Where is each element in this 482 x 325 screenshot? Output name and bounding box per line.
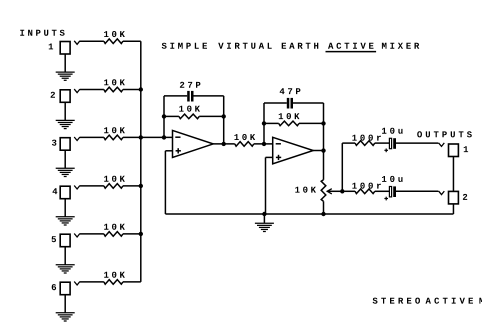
title VIRTUAL xyxy=(218,43,272,49)
pin label 2 xyxy=(51,92,55,98)
value 10K for R6 xyxy=(104,272,125,278)
value 10K for R2 xyxy=(104,79,125,85)
wire to R10 xyxy=(342,142,355,144)
wire C4 to output connector 2 xyxy=(396,190,438,192)
wire xyxy=(123,281,141,283)
wire xyxy=(80,89,104,91)
ground at J3 xyxy=(64,150,66,168)
wire from R9 xyxy=(299,122,324,124)
junction U1 output xyxy=(222,142,226,146)
wire xyxy=(80,185,104,187)
pin label 1 xyxy=(49,44,53,50)
potentiometer VR1 10K xyxy=(321,180,326,202)
wire U1 feedback right vertical xyxy=(223,96,225,144)
wire U2 output xyxy=(313,150,323,152)
wire xyxy=(123,185,141,187)
U2 plus pin mark xyxy=(276,156,281,158)
ground at J6 xyxy=(64,295,66,313)
U1 minus pin mark xyxy=(175,136,180,138)
connector J2 input 2 xyxy=(60,90,70,103)
wire to R11 xyxy=(342,190,355,192)
node U2 inverting input junction xyxy=(262,142,266,146)
wire U1 feedback top right xyxy=(194,95,224,97)
arrow into J4 wire xyxy=(74,186,80,190)
value 10u for C4 xyxy=(382,176,403,182)
junction U2 output xyxy=(321,148,325,152)
resistor R3 10K xyxy=(104,135,123,140)
C3 plus polarity mark xyxy=(384,149,388,151)
connector J4 input 4 xyxy=(60,186,70,199)
resistor R5 10K xyxy=(104,232,123,237)
wire xyxy=(123,136,141,138)
arrow into J2 wire xyxy=(74,89,80,93)
wire U1 output xyxy=(213,143,235,145)
pin label 6 xyxy=(52,284,56,290)
wire U2 feedback top left xyxy=(264,102,287,104)
junction bus/R3 xyxy=(139,135,143,139)
resistor R7 10K feedback U1 xyxy=(179,114,199,119)
junction R9/right xyxy=(321,121,325,125)
wire C3 to output connector 1 xyxy=(396,142,438,144)
arrow into J5 wire xyxy=(74,234,80,238)
junction R7/right xyxy=(222,114,226,118)
pin label 5 xyxy=(52,236,56,242)
junction rail/ground xyxy=(262,212,266,216)
value 10K for R9 xyxy=(279,113,300,119)
wire from R7 xyxy=(199,115,224,117)
resistor R8 10K series xyxy=(235,142,254,147)
arrow into output 2 xyxy=(439,191,445,195)
value 47P for C2 xyxy=(280,88,301,94)
wire wiper node up to output 1 row xyxy=(341,143,343,191)
wire U1 feedback top left xyxy=(164,95,187,97)
wire output 2 sleeve down to rail xyxy=(452,204,454,214)
connector J1 input 1 xyxy=(60,42,70,55)
pin label 2 xyxy=(463,194,467,200)
wire xyxy=(80,233,104,235)
value 10K for VR1 xyxy=(295,187,316,193)
ground at J5 xyxy=(64,247,66,265)
capacitor C1 27P xyxy=(187,91,190,102)
value 10u for C3 xyxy=(382,128,403,134)
arrow into J6 wire xyxy=(74,282,80,286)
wire xyxy=(123,233,141,235)
wire U2 feedback left vertical xyxy=(263,103,265,144)
title EARTH xyxy=(282,43,319,49)
value 100r for R10 xyxy=(352,135,381,141)
wire U1 feedback left vertical xyxy=(163,96,165,137)
wire bus to U1 inverting input xyxy=(141,136,173,138)
value 10K for R8 xyxy=(234,134,255,140)
connector output 1 xyxy=(449,144,459,157)
pin label 1 xyxy=(464,146,468,152)
value 10K for R1 xyxy=(104,31,125,37)
junction VR1 wiper node xyxy=(340,189,344,193)
resistor R9 10K feedback U2 xyxy=(279,121,299,126)
resistor R11 100r xyxy=(355,189,375,194)
ground at J4 xyxy=(64,199,66,217)
ground main xyxy=(263,214,265,223)
connector output 2 xyxy=(449,191,459,204)
title ACTIVE (underlined) xyxy=(328,43,374,49)
wire into R7 xyxy=(164,115,179,117)
wire VR1 bottom to rail xyxy=(323,201,325,214)
junction bus/R4 xyxy=(139,184,143,188)
wire U2 output to VR1 xyxy=(323,151,325,180)
value 10K for R5 xyxy=(104,224,125,230)
wire summing bus xyxy=(140,41,142,282)
title SIMPLE xyxy=(162,43,207,49)
caption STEREO ACTIVE MIXER (clipped at right edge) xyxy=(373,298,420,304)
wire xyxy=(80,281,104,283)
ground at J1 xyxy=(64,54,66,72)
node U1 inverting input junction xyxy=(162,135,166,139)
wire U1 non-inverting to ground rail xyxy=(165,150,172,152)
capacitor C4 10u electrolytic xyxy=(389,187,391,197)
resistor R6 10K xyxy=(104,280,123,285)
connector J5 input 5 xyxy=(60,234,70,247)
label INPUTS xyxy=(20,30,64,36)
pin label 4 xyxy=(53,188,58,194)
wire R11 to C4 xyxy=(375,190,389,192)
op-amp U2 xyxy=(273,137,314,164)
title MIXER xyxy=(382,43,419,49)
wire output 1 sleeve to output 2 sleeve xyxy=(452,157,454,192)
capacitor C2 47P xyxy=(287,98,290,109)
arrow into J3 wire xyxy=(74,137,80,141)
wire U2 feedback top right xyxy=(293,102,324,104)
wire xyxy=(123,40,141,42)
op-amp U1 xyxy=(173,130,214,157)
wire U2 non-inverting to ground rail xyxy=(266,156,273,158)
resistor R4 10K xyxy=(104,184,123,189)
value 100r for R11 xyxy=(352,183,381,189)
connector J3 input 3 xyxy=(60,138,70,151)
U1 plus pin mark xyxy=(176,150,181,152)
junction rail/VR1 xyxy=(321,212,325,216)
junction bus/R5 xyxy=(139,232,143,236)
wire xyxy=(80,40,104,42)
wire R8 to U2 xyxy=(254,143,273,145)
wire xyxy=(123,89,141,91)
ground at J2 xyxy=(64,102,66,120)
VR1 wiper arrow xyxy=(327,190,342,192)
wire R10 to C3 xyxy=(375,142,389,144)
resistor R1 10K xyxy=(104,39,123,44)
C4 plus polarity mark xyxy=(384,198,388,200)
connector J6 input 6 xyxy=(60,282,70,295)
value 10K for R3 xyxy=(104,127,125,133)
resistor R10 100r xyxy=(355,141,375,146)
junction bus/R2 xyxy=(139,87,143,91)
value 27P for C1 xyxy=(180,82,201,88)
capacitor C3 10u electrolytic xyxy=(389,138,391,148)
junction R9/left xyxy=(262,121,266,125)
junction R7/left xyxy=(162,114,166,118)
arrow into J1 wire xyxy=(74,41,80,45)
arrow into output 1 xyxy=(439,143,445,147)
wire xyxy=(80,136,104,138)
wire into R9 xyxy=(264,122,279,124)
resistor R2 10K xyxy=(104,87,123,92)
pin label 3 xyxy=(52,140,57,146)
wire ground rail xyxy=(165,213,453,215)
U2 minus pin mark xyxy=(276,143,281,145)
value 10K for R7 xyxy=(179,106,200,112)
value 10K for R4 xyxy=(104,176,125,182)
wire U2 feedback right vertical xyxy=(323,103,325,151)
label OUTPUTS xyxy=(417,131,472,137)
